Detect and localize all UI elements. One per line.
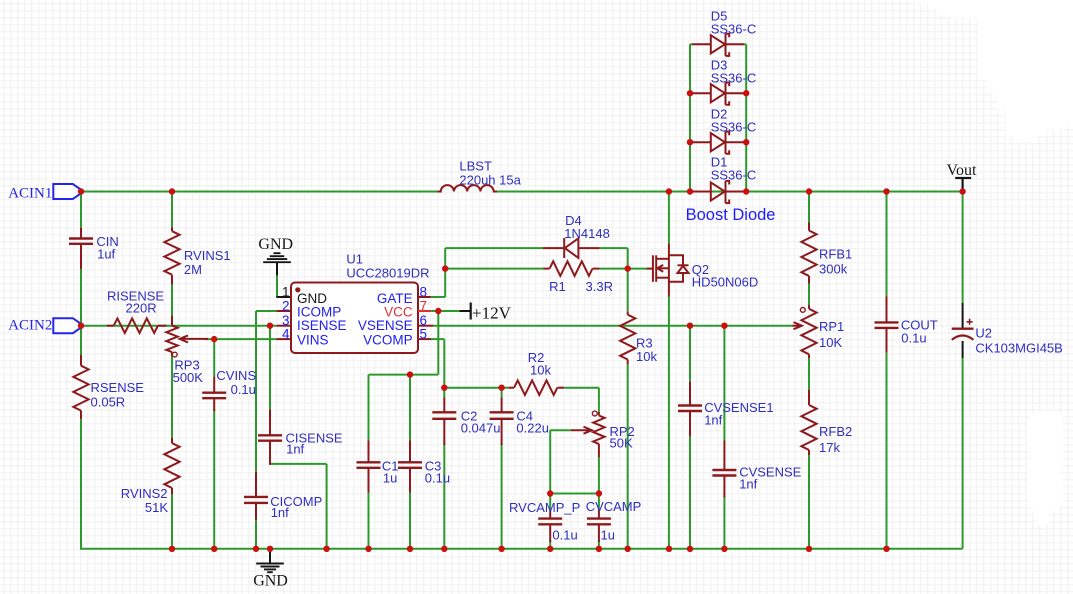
svg-text:+12V: +12V [472,304,512,323]
inductor LBST [437,185,497,191]
potentiometer RP3 marker circle [172,352,177,357]
wire CVSENSE1 to bottom rail [689,435,691,549]
svg-text:RVINS1: RVINS1 [184,248,231,263]
svg-text:300k: 300k [819,262,848,277]
capacitor RVCAMP_P top lead [549,510,551,519]
potentiometer RP3 bottom lead [171,352,173,356]
capacitor CIN plates [69,237,93,239]
wire top rail to RVINS1 [171,192,173,228]
resistor R3 top lead [627,312,629,315]
resistor R1 right lead [593,268,600,270]
svg-text:50K: 50K [610,435,633,450]
wire VCC down [437,311,439,375]
svg-text:0.047u: 0.047u [461,421,501,436]
junction [78,323,84,329]
diode D5 [692,34,744,56]
svg-text:1N4148: 1N4148 [564,226,610,241]
junction [721,323,727,329]
capacitor CVSENSE plates [712,469,736,471]
wire VCOMP pin [431,338,444,340]
junction [442,265,448,271]
resistor RVINS2 bottom lead [171,488,173,495]
wire GND symbol stub [276,262,278,276]
resistor RSENSE top lead [80,355,82,366]
wire RP3 to RVINS2 [171,356,173,438]
resistor R3 bottom lead [627,360,629,365]
wire R2 line left [444,387,508,389]
junction [435,308,441,314]
junction [666,188,672,194]
wire diode stack right [745,44,747,191]
capacitor C2 plates [432,411,456,413]
svg-text:Vout: Vout [947,162,977,179]
junction [365,546,371,552]
resistor R3 body [620,315,635,360]
svg-text:51K: 51K [145,500,168,515]
wire node B riser [627,248,629,269]
junction [323,546,329,552]
wire GND to pin1 [276,275,278,297]
wire RP1 to RFB2 [808,358,810,390]
wire C4 to bottom rail [501,444,503,549]
svg-text:GND: GND [253,573,288,590]
wire +12V flag stub [460,310,471,312]
resistor RSENSE body [73,366,88,411]
capacitor C4 top lead [501,397,503,412]
junction [596,490,602,496]
wire RVCAMP link [550,493,599,495]
svg-text:1nf: 1nf [286,442,304,457]
capacitor CICOMP plates [244,496,268,498]
svg-text:7: 7 [420,298,428,313]
junction [211,546,217,552]
junction [883,188,889,194]
wire pin1 GND horizontal [276,296,291,298]
wire ACIN1 to CIN [80,192,82,228]
svg-text:10k: 10k [636,349,657,364]
junction [169,188,175,194]
svg-text:CVCAMP: CVCAMP [586,499,642,514]
junction [596,546,602,552]
diode D2 [692,132,744,154]
junction [666,546,672,552]
junction [211,336,217,342]
capacitor C3 plates [398,461,422,463]
wire Vout column upper [962,192,964,304]
potentiometer RP3 wiper arrow [180,335,208,342]
capacitor CISENSE plates [258,434,282,436]
junction [743,139,749,145]
wire to C3 [409,375,411,441]
capacitor U2 bottom lead [962,341,964,358]
wire diode row left [690,92,693,94]
capacitor CVSENSE1 plates [678,404,702,406]
svg-text:1nf: 1nf [739,477,757,492]
svg-text:220uh 15a: 220uh 15a [459,173,521,188]
wire RFB2 to bottom rail [808,455,810,549]
capacitor CVINS top lead [213,377,215,393]
wire top rail to COUT [886,192,888,297]
resistor RISENSE left lead [107,325,114,327]
wire diode row left [690,43,693,45]
potentiometer RP2 wiper arrow [571,427,592,434]
junction [547,546,553,552]
potentiometer RP2 top lead [598,412,600,416]
capacitor U2 plus sign [967,319,973,325]
junction [687,188,693,194]
svg-text:CK103MGI45B: CK103MGI45B [975,341,1062,356]
wire R1 branch right [600,268,628,270]
wire diode row right [744,92,746,94]
svg-text:U2: U2 [975,326,992,341]
svg-text:LBST: LBST [459,159,492,174]
wire node B to R3 [627,269,629,312]
svg-text:1u: 1u [601,527,615,542]
capacitor U2 top plate [952,328,974,330]
wire VCOMP down [443,339,445,388]
wire to C1 [368,375,370,441]
wire to RP2 [598,388,600,412]
wire RSENSE to bottom rail [80,419,82,549]
wire to Q2 gate [628,268,647,270]
svg-text:2: 2 [282,298,290,313]
junction [407,546,413,552]
wire top rail right of LBST [497,191,962,193]
potentiometer RP1 marker circle [800,308,805,313]
wire to CVSENSE [723,326,725,441]
op-amp / IC U1 UCC28019DR body [291,283,418,354]
junction [721,546,727,552]
wire VCC pin [431,310,459,312]
potentiometer RP3 top lead [171,316,173,326]
svg-text:1nf: 1nf [271,505,289,520]
transistor Q2 MOSFET [647,244,689,297]
junction [806,188,812,194]
resistor RISENSE body [114,318,158,333]
svg-text:10K: 10K [819,335,842,350]
capacitor C2 top lead [443,397,445,412]
svg-text:SS36-C: SS36-C [711,22,757,37]
capacitor RVCAMP_P plates [538,517,562,519]
wire bottom rail [80,548,963,550]
svg-text:220R: 220R [126,300,157,315]
wire top rail left of LBST [81,191,437,193]
resistor RP2 (pot) body [593,416,604,444]
capacitor CICOMP top lead [255,472,257,497]
resistor R2 right lead [557,387,564,389]
capacitor CVCAMP plates [587,517,611,519]
diode D1 [692,181,744,203]
resistor RP1 (pot) body [801,309,816,355]
U1 pin8 stub [418,296,431,298]
junction [625,546,631,552]
capacitor C3 bottom lead [409,468,411,493]
resistor R2 body [514,380,557,395]
capacitor CVSENSE top lead [723,441,725,471]
svg-text:CVINS: CVINS [216,368,256,383]
capacitor COUT plates [875,321,899,323]
capacitor U2 polarized top lead [962,303,964,328]
junction [806,546,812,552]
wire GATE riser [444,248,446,297]
wire to RVCAMP_P [549,494,551,510]
U1 left pin stub [276,310,291,312]
U1 pin7 stub (VCC) [418,310,431,312]
wire CICOMP to bottom rail [255,519,257,549]
wire RP2 wiper horizontal [550,429,571,431]
wire ICOMP pin [256,310,276,312]
svg-text:VINS: VINS [297,333,329,348]
svg-text:RP1: RP1 [819,319,844,334]
junction [883,546,889,552]
capacitor CVSENSE1 top lead [689,382,691,406]
svg-text:RVINS2: RVINS2 [121,486,168,501]
capacitor C3 top lead [409,440,411,462]
svg-text:ISENSE: ISENSE [297,318,347,333]
capacitor CVCAMP bottom lead [598,524,600,542]
resistor RVINS1 body [164,231,179,275]
svg-text:ACIN2: ACIN2 [8,318,52,334]
svg-text:5: 5 [420,327,428,342]
capacitor C2 bottom lead [443,419,445,445]
wire C3 to bottom rail [409,491,411,549]
wire RP2 to CVCAMP node [598,457,600,493]
wire ACIN2/ISENSE line [81,325,276,327]
wire top rail to RFB1 [808,192,810,223]
svg-text:8: 8 [420,284,428,299]
wire COUT to bottom rail [886,353,888,549]
junction [407,371,413,377]
svg-text:1nf: 1nf [704,413,722,428]
junction [687,90,693,96]
wire diode row right [744,43,746,45]
capacitor CISENSE bottom lead [269,441,271,465]
junction [687,323,693,329]
svg-text:GND: GND [258,236,293,253]
wire diode row right [744,141,746,143]
wire RVINS2 to bottom rail [171,495,173,549]
capacitor CIN top lead [80,228,82,239]
svg-text:VSENSE: VSENSE [358,318,413,333]
wire to RSENSE [80,326,82,355]
capacitor U2 curved bottom plate [952,336,974,340]
wire Vout column lower [962,358,964,549]
capacitor RVCAMP_P bottom lead [549,524,551,542]
capacitor COUT top lead [886,296,888,322]
junction [743,188,749,194]
junction [743,90,749,96]
power flag Vout [955,178,971,192]
wire top rail to Q2 drain [668,192,670,244]
svg-text:RVCAMP_P: RVCAMP_P [509,500,580,515]
junction [267,323,273,329]
ground symbol bottom [256,564,284,573]
canvas edge blob right-middle [1028,411,1063,525]
diode D3 [692,83,744,105]
capacitor CVCAMP top lead [598,510,600,519]
wire CISENSE bottom jog [270,463,327,465]
wire ISENSE to CISENSE [269,326,271,410]
capacitor C1 plates [357,461,381,463]
potentiometer RP2 marker circle [592,411,597,416]
wire R1 branch left [445,268,543,270]
junction [498,546,504,552]
potentiometer RP1 top lead [808,305,810,309]
svg-text:SS36-C: SS36-C [711,120,757,135]
capacitor CISENSE top lead [269,409,271,435]
U1 pin6 stub [418,325,433,327]
resistor RVINS1 top lead [171,227,173,231]
wire ICOMP to CICOMP [255,311,257,472]
port ACIN1 [53,184,81,199]
U1 left pin stub [276,325,291,327]
svg-text:4: 4 [282,327,290,342]
resistor RFB2 body [801,405,816,450]
svg-text:RFB2: RFB2 [819,424,852,439]
capacitor C4 plates [490,411,514,413]
svg-text:10k: 10k [530,363,551,378]
junction [687,139,693,145]
capacitor CVINS bottom lead [213,398,215,411]
svg-text:0.1u: 0.1u [552,527,577,542]
svg-text:0.22u: 0.22u [516,421,549,436]
capacitor CVINS plates [202,392,226,394]
junction [959,188,965,194]
resistor RFB1 body [801,231,816,277]
junction [267,546,273,552]
svg-text:Boost Diode: Boost Diode [686,206,776,224]
canvas edge blob top-right [914,0,1073,142]
svg-text:2M: 2M [184,262,202,277]
wire Q2 source to bottom rail [668,297,670,549]
U1 pin5 stub [418,338,431,340]
wire to CVSENSE1 [689,326,691,382]
resistor RISENSE right lead [158,325,167,327]
capacitor COUT bottom lead [886,328,888,353]
junction [78,188,84,194]
wire D4 to node B [600,247,628,249]
svg-text:17k: 17k [819,440,840,455]
capacitor CVSENSE bottom lead [723,476,725,498]
potentiometer RP2 bottom lead [598,444,600,458]
svg-text:R1: R1 [549,279,566,294]
junction [441,385,447,391]
wire VINS line [205,338,276,340]
diode D4 [543,238,600,258]
svg-text:0.05R: 0.05R [91,394,126,409]
resistor R1 left lead [544,268,550,270]
wire C2 to bottom rail [443,444,445,549]
junction [687,546,693,552]
wire to CVCAMP [598,494,600,510]
svg-text:UCC28019DR: UCC28019DR [346,266,429,281]
capacitor C1 bottom lead [368,468,370,493]
wire VCC horizontal to C1 [369,374,439,376]
resistor RSENSE bottom lead [80,411,82,420]
wire RVINS1 to RP3 [171,285,173,316]
svg-text:0.1u: 0.1u [901,330,926,345]
wire RVCAMP_P to bottom rail [549,541,551,549]
wire R2 line right [564,387,599,389]
svg-text:RSENSE: RSENSE [91,380,145,395]
junction [253,546,259,552]
wire to C4 [501,388,503,398]
ground symbol near U1 [263,253,291,262]
resistor RVINS2 top lead [171,438,173,443]
wire CVSENSE to bottom rail [723,496,725,549]
junction [498,385,504,391]
svg-text:RFB1: RFB1 [819,247,852,262]
resistor RFB2 bottom lead [808,450,810,455]
resistor RVINS1 bottom lead [171,275,173,285]
svg-text:U1: U1 [346,252,363,267]
svg-text:SS36-C: SS36-C [711,71,757,86]
wire CIN to ACIN2 node [80,249,82,326]
resistor RVINS2 body [164,443,179,488]
wire CVINS to bottom rail [213,410,215,549]
capacitor C1 top lead [368,440,370,462]
capacitor C4 bottom lead [501,419,503,445]
wire CVCAMP to bottom rail [598,541,600,549]
svg-text:0.1u: 0.1u [425,470,450,485]
wire RP2 wiper down [549,430,551,493]
svg-text:VCOMP: VCOMP [363,333,413,348]
junction [547,490,553,496]
port ACIN2 [53,318,81,333]
capacitor CICOMP bottom lead [255,503,257,520]
svg-text:500K: 500K [173,370,204,385]
U1 left pin stub [276,338,291,340]
wire C1 to bottom rail [368,491,370,549]
power flag +12V bar [470,303,472,320]
wire diode row left [690,141,693,143]
junction [625,265,631,271]
resistor RFB2 top lead [808,390,810,405]
wire to CVINS [213,339,215,377]
svg-text:ACIN1: ACIN1 [8,186,52,202]
junction [441,546,447,552]
svg-text:1: 1 [282,284,290,299]
wire to C2 [443,388,445,398]
resistor R1 body [550,261,593,276]
potentiometer RP1 bottom lead [808,354,810,358]
svg-text:1uf: 1uf [97,246,115,261]
resistor RFB1 bottom lead [808,276,810,284]
resistor R2 left lead [508,387,514,389]
capacitor CVSENSE1 bottom lead [689,411,691,436]
svg-text:3.3R: 3.3R [586,279,613,294]
capacitor CIN bottom lead [80,244,82,269]
U1 pin1 marker dot [295,287,300,292]
wire D4 branch [445,247,543,249]
wire VSENSE line [433,325,793,327]
resistor RFB1 top lead [808,223,810,231]
wire RFB1 to RP1 [808,284,810,306]
wire GATE pin [431,296,445,298]
potentiometer RP1 wiper arrow [793,322,802,329]
junction [169,546,175,552]
svg-text:0.1u: 0.1u [231,382,256,397]
wire CISENSE jog down [326,464,328,549]
wire R3 to bottom rail [627,364,629,549]
wire diode stack left [689,44,691,191]
resistor RP3 (pot) body [166,326,177,353]
wire bottom GND stub [269,549,271,564]
svg-text:1u: 1u [383,470,397,485]
svg-text:HD50N06D: HD50N06D [692,275,758,290]
svg-text:SS36-C: SS36-C [711,168,757,183]
